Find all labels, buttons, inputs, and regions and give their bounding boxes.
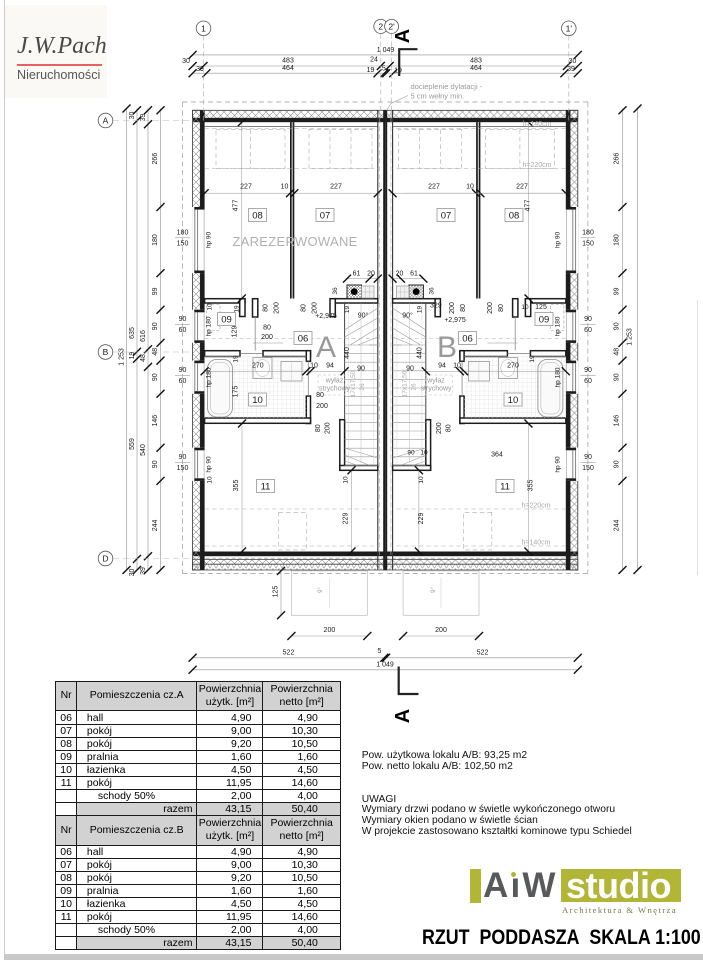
svg-text:19: 19 <box>367 67 375 74</box>
svg-text:10: 10 <box>281 184 289 191</box>
svg-text:+2,975: +2,975 <box>315 313 337 320</box>
svg-text:08: 08 <box>509 211 520 222</box>
svg-text:08: 08 <box>252 211 263 222</box>
svg-text:hp 90: hp 90 <box>555 456 562 473</box>
svg-text:17x17,50: 17x17,50 <box>402 370 409 397</box>
svg-text:90: 90 <box>152 373 159 381</box>
svg-text:94: 94 <box>438 363 446 370</box>
svg-text:522: 522 <box>477 649 489 656</box>
svg-text:90: 90 <box>584 454 592 461</box>
svg-text:80: 80 <box>301 304 308 312</box>
svg-text:180: 180 <box>152 234 159 246</box>
svg-text:80: 80 <box>460 304 467 312</box>
svg-text:440: 440 <box>417 347 424 359</box>
svg-text:10: 10 <box>207 303 214 311</box>
svg-text:30: 30 <box>129 569 136 577</box>
svg-text:270: 270 <box>507 363 519 370</box>
svg-text:hp 90: hp 90 <box>206 231 213 248</box>
svg-text:1: 1 <box>201 23 206 33</box>
svg-text:19: 19 <box>129 352 136 360</box>
svg-text:10: 10 <box>466 184 474 191</box>
svg-text:09: 09 <box>221 315 232 326</box>
svg-text:48: 48 <box>152 348 159 356</box>
svg-text:20: 20 <box>396 271 404 278</box>
svg-text:329: 329 <box>430 303 442 310</box>
svg-text:h=220cm: h=220cm <box>522 503 551 510</box>
svg-text:244: 244 <box>152 519 159 531</box>
svg-text:227: 227 <box>516 184 528 191</box>
svg-text:17x17,50: 17x17,50 <box>350 370 357 397</box>
svg-text:06: 06 <box>298 334 309 345</box>
svg-text:540: 540 <box>140 444 147 456</box>
svg-text:80: 80 <box>263 325 271 332</box>
svg-text:D: D <box>102 554 108 564</box>
svg-text:10: 10 <box>418 476 425 484</box>
svg-text:1 253: 1 253 <box>118 348 125 366</box>
svg-text:2: 2 <box>378 21 383 31</box>
svg-text:150: 150 <box>582 465 594 472</box>
svg-text:61: 61 <box>353 271 361 278</box>
svg-text:10: 10 <box>453 363 461 370</box>
svg-text:07: 07 <box>441 211 452 222</box>
svg-text:90: 90 <box>357 366 365 373</box>
svg-text:60: 60 <box>584 378 592 385</box>
svg-text:5: 5 <box>378 648 382 655</box>
svg-text:229: 229 <box>343 513 350 525</box>
svg-text:522: 522 <box>283 649 295 656</box>
svg-text:A: A <box>316 331 336 364</box>
svg-text:483: 483 <box>470 58 482 65</box>
svg-text:39: 39 <box>567 66 575 73</box>
svg-text:80: 80 <box>316 392 324 399</box>
svg-text:90: 90 <box>406 366 414 373</box>
svg-text:227: 227 <box>330 184 342 191</box>
svg-text:5 cm wełny min.: 5 cm wełny min. <box>411 92 465 101</box>
svg-text:A: A <box>103 116 109 126</box>
svg-text:90: 90 <box>152 460 159 468</box>
svg-text:hp 180: hp 180 <box>206 367 213 387</box>
svg-text:hp 90: hp 90 <box>555 231 562 248</box>
svg-text:125: 125 <box>272 586 279 598</box>
svg-text:90: 90 <box>584 367 592 374</box>
svg-text:10: 10 <box>508 395 519 406</box>
svg-text:180: 180 <box>614 234 621 246</box>
svg-text:60: 60 <box>584 327 592 334</box>
svg-text:90: 90 <box>584 316 592 323</box>
svg-text:B: B <box>103 347 109 357</box>
svg-text:146: 146 <box>614 415 621 427</box>
svg-text:30: 30 <box>129 112 136 120</box>
svg-text:464: 464 <box>282 65 294 72</box>
svg-text:30: 30 <box>182 58 190 65</box>
svg-text:19: 19 <box>529 355 536 363</box>
svg-text:48: 48 <box>614 348 621 356</box>
svg-text:1 049: 1 049 <box>376 661 394 668</box>
svg-text:26: 26 <box>411 383 418 391</box>
svg-text:559: 559 <box>129 438 136 450</box>
svg-text:90: 90 <box>179 316 187 323</box>
svg-text:99: 99 <box>614 287 621 295</box>
svg-text:9°: 9° <box>431 587 437 593</box>
svg-text:200: 200 <box>449 302 456 314</box>
svg-text:1 253: 1 253 <box>627 328 634 346</box>
svg-text:200: 200 <box>435 627 447 634</box>
svg-text:10: 10 <box>521 304 529 311</box>
svg-text:19: 19 <box>417 306 424 314</box>
svg-text:A: A <box>392 29 414 43</box>
svg-text:1': 1' <box>566 23 573 33</box>
svg-text:229: 229 <box>418 513 425 525</box>
svg-text:175: 175 <box>233 386 240 398</box>
svg-text:h=140cm: h=140cm <box>522 540 551 547</box>
svg-text:9°: 9° <box>318 587 324 593</box>
svg-text:180: 180 <box>582 230 594 237</box>
svg-text:80: 80 <box>263 304 270 312</box>
svg-text:48: 48 <box>140 354 147 362</box>
svg-text:635: 635 <box>129 327 136 339</box>
svg-text:60: 60 <box>179 378 187 385</box>
svg-text:20: 20 <box>367 271 375 278</box>
svg-text:39: 39 <box>140 567 147 575</box>
svg-text:07: 07 <box>320 211 331 222</box>
svg-text:200: 200 <box>261 334 273 341</box>
svg-text:150: 150 <box>177 465 189 472</box>
svg-text:30: 30 <box>569 58 577 65</box>
svg-text:227: 227 <box>240 184 252 191</box>
svg-text:hp 180: hp 180 <box>555 316 562 336</box>
svg-text:80: 80 <box>445 424 452 432</box>
svg-text:11: 11 <box>500 482 510 493</box>
svg-text:hp 180: hp 180 <box>206 316 213 336</box>
svg-text:355: 355 <box>528 480 535 492</box>
svg-text:60: 60 <box>179 327 187 334</box>
svg-text:26: 26 <box>359 383 366 391</box>
svg-text:266: 266 <box>614 153 621 165</box>
svg-text:wyłaz: wyłaz <box>325 378 344 385</box>
svg-text:146: 146 <box>152 415 159 427</box>
svg-text:200: 200 <box>436 422 443 434</box>
svg-text:19: 19 <box>344 306 351 314</box>
svg-text:200: 200 <box>316 403 328 410</box>
svg-text:90°: 90° <box>402 312 413 320</box>
svg-text:h=220cm: h=220cm <box>523 162 552 169</box>
svg-text:19: 19 <box>394 68 402 75</box>
svg-text:227: 227 <box>428 184 440 191</box>
svg-text:A: A <box>392 709 414 723</box>
svg-text:90: 90 <box>614 373 621 381</box>
svg-text:99: 99 <box>152 287 159 295</box>
svg-text:90: 90 <box>407 450 415 457</box>
svg-text:483: 483 <box>282 58 294 65</box>
svg-text:61: 61 <box>410 271 418 278</box>
svg-text:266: 266 <box>152 153 159 165</box>
svg-text:h=140cm: h=140cm <box>523 121 552 128</box>
svg-text:10: 10 <box>310 363 318 370</box>
svg-text:90°: 90° <box>358 312 369 320</box>
svg-text:10: 10 <box>207 476 214 484</box>
svg-text:strychowy: strychowy <box>420 386 452 393</box>
svg-text:150: 150 <box>582 241 594 248</box>
svg-text:90: 90 <box>179 454 187 461</box>
svg-text:39: 39 <box>196 66 204 73</box>
svg-text:616: 616 <box>140 330 147 342</box>
svg-text:200: 200 <box>274 302 281 314</box>
svg-text:80: 80 <box>315 424 322 432</box>
svg-text:200: 200 <box>325 422 332 434</box>
svg-text:200: 200 <box>487 302 494 314</box>
svg-text:10: 10 <box>252 395 263 406</box>
svg-text:180: 180 <box>177 230 189 237</box>
svg-text:hp 180: hp 180 <box>555 367 562 387</box>
svg-text:477: 477 <box>233 200 240 212</box>
svg-text:09: 09 <box>539 315 550 326</box>
svg-text:5: 5 <box>382 66 386 73</box>
svg-text:80: 80 <box>498 304 505 312</box>
svg-text:90: 90 <box>179 367 187 374</box>
svg-text:464: 464 <box>470 65 482 72</box>
svg-text:wyłaz: wyłaz <box>426 378 445 385</box>
svg-text:B: B <box>437 331 457 364</box>
svg-text:06: 06 <box>462 334 473 345</box>
svg-text:+2,975: +2,975 <box>444 317 466 324</box>
svg-text:355: 355 <box>233 480 240 492</box>
svg-text:200: 200 <box>324 627 336 634</box>
svg-text:90: 90 <box>614 322 621 330</box>
svg-text:270: 270 <box>252 363 264 370</box>
svg-text:ZAREZERWOWANE: ZAREZERWOWANE <box>232 234 357 249</box>
svg-text:364: 364 <box>491 452 503 459</box>
svg-text:244: 244 <box>614 519 621 531</box>
svg-text:24: 24 <box>370 57 378 64</box>
svg-text:hp 90: hp 90 <box>206 456 213 473</box>
svg-text:125: 125 <box>535 304 547 311</box>
svg-text:10: 10 <box>343 476 350 484</box>
svg-text:19: 19 <box>234 305 241 313</box>
svg-text:90: 90 <box>152 322 159 330</box>
svg-text:477: 477 <box>525 200 532 212</box>
svg-text:90: 90 <box>614 460 621 468</box>
svg-text:440: 440 <box>344 347 351 359</box>
svg-text:docieplenie dylatacji -: docieplenie dylatacji - <box>411 82 483 91</box>
svg-text:11: 11 <box>261 482 271 493</box>
svg-text:150: 150 <box>177 241 189 248</box>
svg-text:36: 36 <box>332 287 339 295</box>
svg-text:19: 19 <box>233 355 240 363</box>
svg-text:10: 10 <box>420 450 428 457</box>
svg-text:94: 94 <box>326 363 334 370</box>
svg-text:129: 129 <box>231 326 238 338</box>
svg-text:36: 36 <box>429 287 436 295</box>
